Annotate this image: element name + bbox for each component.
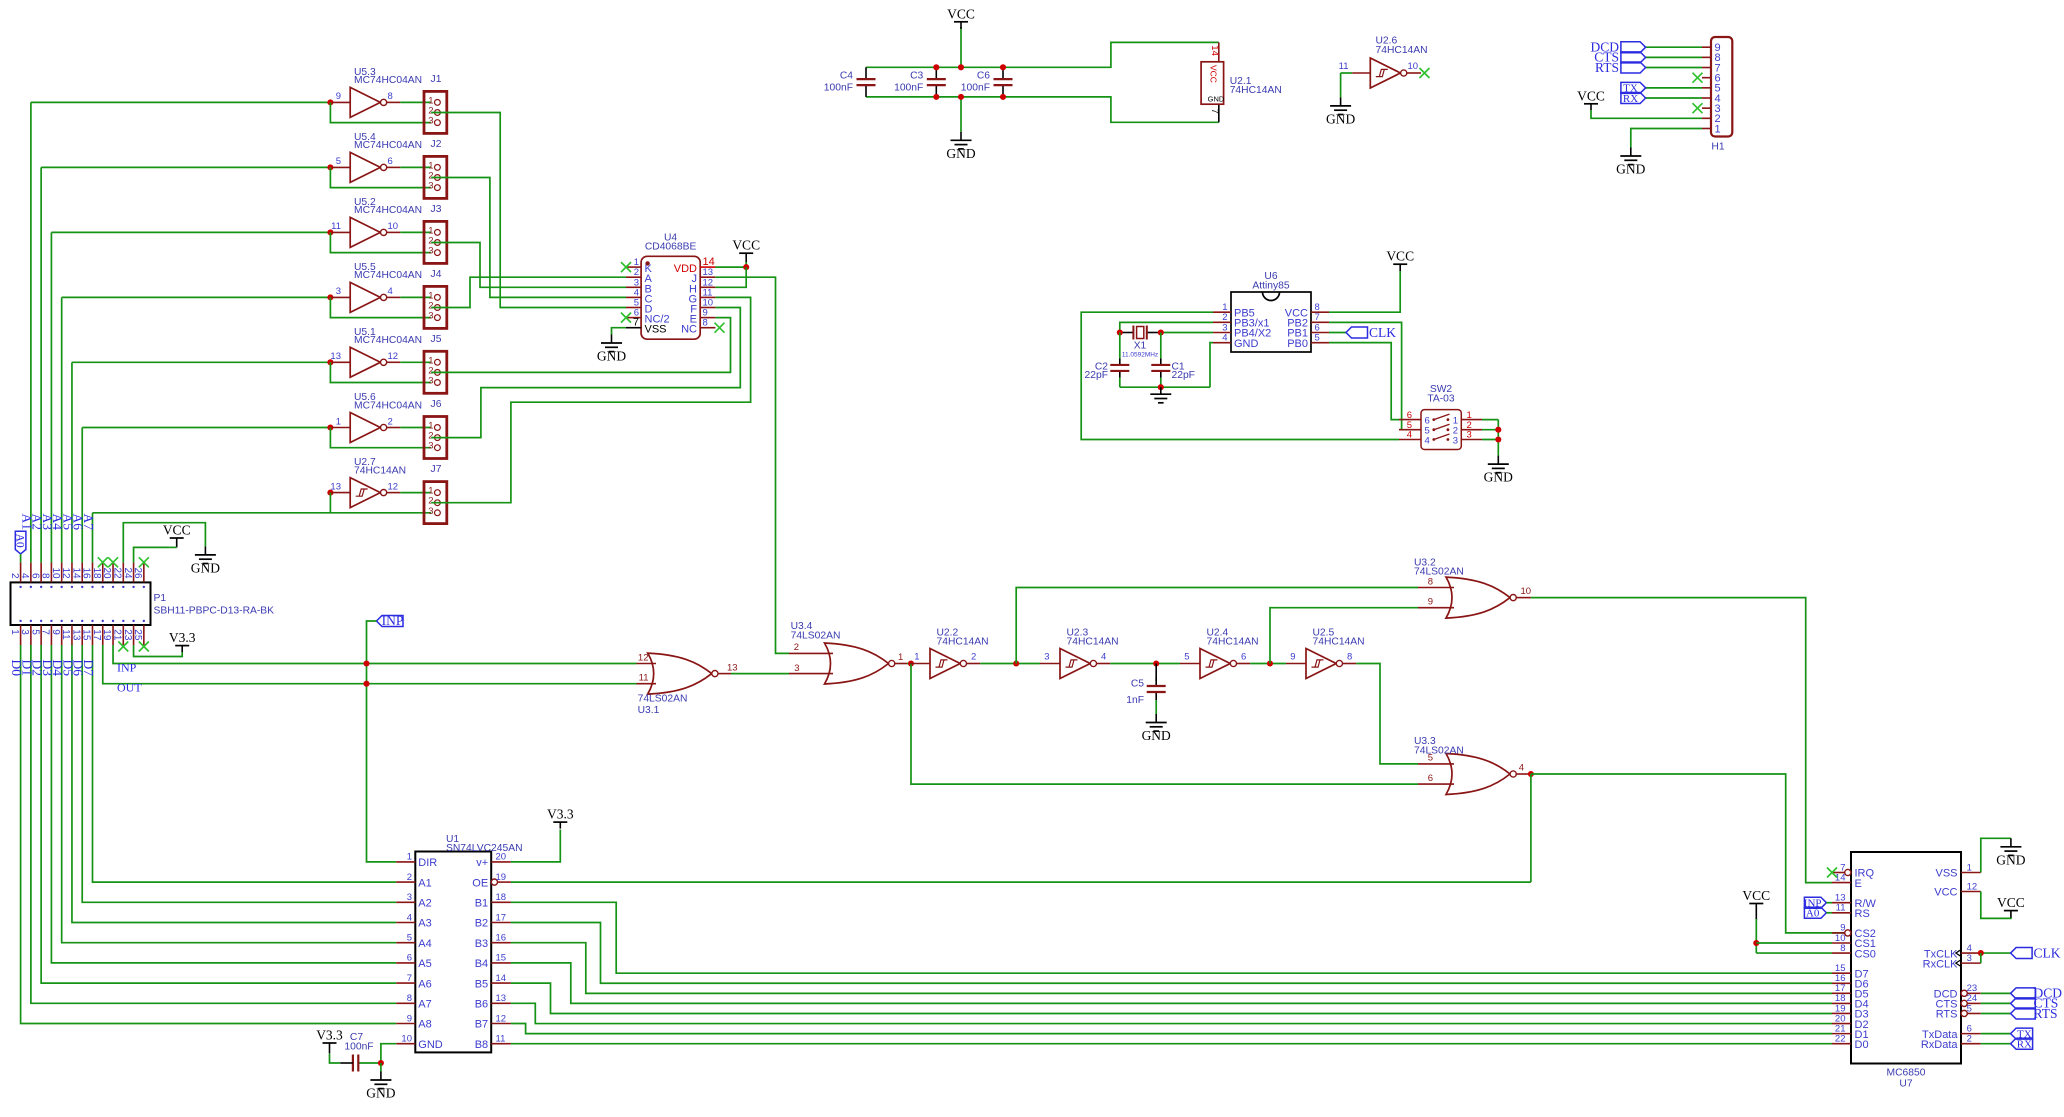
svg-text:74HC14AN: 74HC14AN <box>937 636 989 647</box>
svg-text:74LS02AN: 74LS02AN <box>1414 567 1464 578</box>
svg-text:VCC: VCC <box>1997 895 2025 910</box>
svg-text:3: 3 <box>407 892 412 903</box>
svg-text:B6: B6 <box>475 999 488 1011</box>
svg-text:18: 18 <box>496 892 507 903</box>
svg-text:B8: B8 <box>475 1039 488 1051</box>
svg-text:100nF: 100nF <box>824 82 853 93</box>
svg-text:1: 1 <box>407 852 412 863</box>
svg-text:8: 8 <box>388 91 393 102</box>
svg-text:1: 1 <box>336 416 341 427</box>
svg-text:100nF: 100nF <box>894 82 923 93</box>
svg-text:GND: GND <box>191 560 220 575</box>
svg-text:J1: J1 <box>431 74 442 85</box>
svg-text:RxData: RxData <box>1921 1039 1959 1051</box>
svg-text:100nF: 100nF <box>344 1042 373 1053</box>
svg-text:9: 9 <box>50 629 61 635</box>
svg-text:VSS: VSS <box>1935 868 1957 880</box>
svg-text:74LS02AN: 74LS02AN <box>1414 746 1464 757</box>
svg-text:U7: U7 <box>1899 1079 1912 1090</box>
svg-text:3: 3 <box>794 663 799 674</box>
svg-text:74LS02AN: 74LS02AN <box>791 631 841 642</box>
svg-text:22: 22 <box>1835 1033 1846 1044</box>
svg-text:12: 12 <box>388 481 399 492</box>
svg-text:CLK: CLK <box>2034 946 2061 961</box>
svg-text:4: 4 <box>407 912 412 923</box>
svg-text:C6: C6 <box>977 71 990 82</box>
svg-text:2: 2 <box>971 651 976 662</box>
svg-text:14: 14 <box>1209 45 1220 56</box>
svg-text:A5: A5 <box>418 958 431 970</box>
svg-text:V3.3: V3.3 <box>316 1028 343 1043</box>
svg-text:15: 15 <box>81 629 92 641</box>
svg-text:GND: GND <box>946 146 975 161</box>
svg-text:3: 3 <box>428 246 433 257</box>
svg-text:16: 16 <box>496 933 507 944</box>
svg-text:VCC: VCC <box>1577 88 1605 103</box>
svg-text:A2: A2 <box>418 898 431 910</box>
svg-text:11: 11 <box>1339 61 1349 72</box>
svg-text:74LS02AN: 74LS02AN <box>638 694 688 705</box>
svg-text:8: 8 <box>1428 576 1433 587</box>
svg-text:3: 3 <box>428 181 433 192</box>
svg-text:1: 1 <box>1967 862 1972 873</box>
svg-text:21: 21 <box>112 629 123 641</box>
svg-text:17: 17 <box>496 912 507 923</box>
svg-text:A4: A4 <box>418 938 431 950</box>
svg-text:19: 19 <box>496 872 507 883</box>
svg-text:5: 5 <box>336 156 341 167</box>
svg-text:J7: J7 <box>431 464 442 475</box>
svg-text:1: 1 <box>898 652 903 663</box>
svg-text:5: 5 <box>1315 332 1320 343</box>
svg-text:2: 2 <box>1967 1033 1972 1044</box>
svg-text:18: 18 <box>91 567 102 579</box>
svg-text:15: 15 <box>496 953 507 964</box>
svg-text:74HC14AN: 74HC14AN <box>1230 85 1282 96</box>
svg-text:6: 6 <box>388 156 393 167</box>
svg-text:A1: A1 <box>418 877 431 889</box>
svg-text:4: 4 <box>1407 430 1412 441</box>
svg-text:8: 8 <box>703 318 708 329</box>
svg-text:C5: C5 <box>1131 679 1144 690</box>
svg-text:22pF: 22pF <box>1172 370 1195 381</box>
svg-text:RTS: RTS <box>1936 1009 1958 1021</box>
svg-text:VCC: VCC <box>163 523 191 538</box>
svg-text:GND: GND <box>597 349 626 364</box>
svg-text:MC74HC04AN: MC74HC04AN <box>354 270 422 281</box>
svg-text:MC6850: MC6850 <box>1887 1068 1926 1079</box>
svg-text:9: 9 <box>1428 597 1433 608</box>
svg-text:C3: C3 <box>910 71 923 82</box>
svg-text:2: 2 <box>794 642 799 653</box>
svg-text:1: 1 <box>9 629 20 635</box>
svg-text:DIR: DIR <box>418 857 437 869</box>
svg-text:13: 13 <box>330 351 341 362</box>
svg-text:3: 3 <box>336 286 341 297</box>
svg-text:12: 12 <box>60 567 71 579</box>
svg-text:B3: B3 <box>475 938 488 950</box>
svg-text:3: 3 <box>428 311 433 322</box>
svg-text:NC: NC <box>681 324 697 336</box>
svg-text:SBH11-PBPC-D13-RA-BK: SBH11-PBPC-D13-RA-BK <box>154 605 275 616</box>
svg-text:C4: C4 <box>840 71 853 82</box>
svg-text:3: 3 <box>19 629 30 635</box>
svg-text:H1: H1 <box>1711 142 1724 153</box>
svg-text:V3.3: V3.3 <box>169 630 196 645</box>
svg-text:B7: B7 <box>475 1019 488 1031</box>
svg-text:VCC: VCC <box>732 238 760 253</box>
svg-text:6: 6 <box>1428 773 1433 784</box>
svg-text:MC74HC04AN: MC74HC04AN <box>354 335 422 346</box>
svg-text:23: 23 <box>122 629 133 641</box>
svg-text:MC74HC04AN: MC74HC04AN <box>354 75 422 86</box>
svg-text:B4: B4 <box>475 958 488 970</box>
svg-text:1: 1 <box>914 651 919 662</box>
svg-text:CS0: CS0 <box>1855 948 1876 960</box>
svg-text:D7: D7 <box>81 660 96 677</box>
svg-text:10: 10 <box>1408 61 1419 72</box>
svg-text:7: 7 <box>633 317 639 329</box>
svg-text:RTS: RTS <box>2034 1006 2058 1021</box>
svg-text:25: 25 <box>132 629 143 641</box>
svg-text:MC74HC04AN: MC74HC04AN <box>354 205 422 216</box>
svg-text:4: 4 <box>1222 332 1227 343</box>
svg-text:22pF: 22pF <box>1085 370 1108 381</box>
svg-text:22: 22 <box>112 567 123 579</box>
svg-text:5: 5 <box>407 933 412 944</box>
svg-text:A0: A0 <box>1806 908 1820 920</box>
svg-text:V3.3: V3.3 <box>547 807 574 822</box>
svg-text:A8: A8 <box>418 1019 431 1031</box>
svg-text:3: 3 <box>1467 430 1472 441</box>
svg-text:4: 4 <box>388 286 393 297</box>
svg-text:VCC: VCC <box>947 6 975 21</box>
svg-text:A7: A7 <box>418 999 431 1011</box>
svg-text:VCC: VCC <box>1386 249 1414 264</box>
svg-text:TA-03: TA-03 <box>1427 394 1455 405</box>
svg-text:10: 10 <box>388 221 399 232</box>
svg-text:5: 5 <box>1967 1003 1972 1014</box>
svg-text:RX: RX <box>1623 93 1638 105</box>
svg-text:OE: OE <box>472 877 488 889</box>
svg-text:12: 12 <box>496 1013 507 1024</box>
svg-text:3: 3 <box>1044 651 1049 662</box>
svg-text:MC74HC04AN: MC74HC04AN <box>354 400 422 411</box>
svg-text:U3.1: U3.1 <box>638 705 660 716</box>
svg-text:VCC: VCC <box>1209 65 1219 83</box>
svg-text:14: 14 <box>496 973 507 984</box>
svg-text:20: 20 <box>101 567 112 579</box>
svg-text:A6: A6 <box>418 978 431 990</box>
svg-text:12: 12 <box>388 351 399 362</box>
svg-text:11: 11 <box>331 221 341 232</box>
svg-text:4: 4 <box>1519 763 1524 774</box>
svg-text:11: 11 <box>1836 903 1846 914</box>
svg-text:20: 20 <box>496 852 507 863</box>
svg-text:J4: J4 <box>431 269 442 280</box>
svg-text:RTS: RTS <box>1595 60 1619 75</box>
svg-text:13: 13 <box>727 662 738 673</box>
svg-text:GND: GND <box>1234 338 1259 350</box>
svg-text:GND: GND <box>1616 162 1645 177</box>
svg-text:7: 7 <box>40 629 51 635</box>
svg-text:RS: RS <box>1855 908 1870 920</box>
svg-text:74HC14AN: 74HC14AN <box>1376 45 1428 56</box>
svg-text:74HC14AN: 74HC14AN <box>354 465 406 476</box>
svg-text:10: 10 <box>401 1034 412 1045</box>
svg-text:3: 3 <box>428 376 433 387</box>
svg-text:VSS: VSS <box>645 324 667 336</box>
svg-text:11.0592MHz: 11.0592MHz <box>1122 352 1158 359</box>
svg-text:12: 12 <box>638 652 649 663</box>
svg-text:74HC14AN: 74HC14AN <box>1313 636 1365 647</box>
svg-text:INP: INP <box>382 613 404 628</box>
svg-text:3: 3 <box>1453 435 1458 446</box>
svg-text:4: 4 <box>1425 435 1430 446</box>
svg-text:8: 8 <box>407 993 412 1004</box>
svg-text:OUT: OUT <box>117 681 142 695</box>
svg-text:19: 19 <box>101 629 112 641</box>
svg-text:CLK: CLK <box>1369 325 1396 340</box>
svg-text:GND: GND <box>1142 728 1171 743</box>
svg-text:J5: J5 <box>431 334 442 345</box>
svg-text:A3: A3 <box>418 918 431 930</box>
svg-text:SN74LVC245AN: SN74LVC245AN <box>446 843 523 854</box>
svg-text:9: 9 <box>336 91 341 102</box>
svg-text:A0: A0 <box>13 534 25 548</box>
svg-text:74HC14AN: 74HC14AN <box>1207 636 1259 647</box>
svg-text:26: 26 <box>132 567 143 579</box>
svg-text:8: 8 <box>40 573 51 579</box>
svg-text:7: 7 <box>1209 109 1220 114</box>
svg-text:17: 17 <box>91 629 102 641</box>
svg-text:8: 8 <box>1840 943 1845 954</box>
svg-text:100nF: 100nF <box>961 82 990 93</box>
svg-text:1: 1 <box>1715 123 1721 135</box>
svg-text:GND: GND <box>1484 470 1513 485</box>
svg-text:6: 6 <box>29 573 40 579</box>
svg-text:RxCLK: RxCLK <box>1923 958 1959 970</box>
svg-text:16: 16 <box>81 567 92 579</box>
svg-text:13: 13 <box>330 481 341 492</box>
svg-text:10: 10 <box>1521 586 1532 597</box>
svg-text:B1: B1 <box>475 898 488 910</box>
svg-text:11: 11 <box>496 1034 506 1045</box>
svg-text:13: 13 <box>496 993 507 1004</box>
svg-text:Attiny85: Attiny85 <box>1252 281 1289 292</box>
svg-text:CD4068BE: CD4068BE <box>645 242 697 253</box>
svg-text:13: 13 <box>70 629 81 641</box>
svg-text:3: 3 <box>428 116 433 127</box>
svg-text:GND: GND <box>1996 852 2025 867</box>
svg-text:MC74HC04AN: MC74HC04AN <box>354 140 422 151</box>
svg-text:4: 4 <box>1101 651 1106 662</box>
svg-text:11: 11 <box>639 673 649 684</box>
svg-text:7: 7 <box>407 973 412 984</box>
svg-text:J6: J6 <box>431 399 442 410</box>
svg-text:5: 5 <box>29 629 40 635</box>
svg-text:2: 2 <box>388 416 393 427</box>
svg-text:6: 6 <box>407 953 412 964</box>
svg-text:12: 12 <box>1967 881 1978 892</box>
svg-text:1nF: 1nF <box>1126 695 1144 706</box>
svg-text:VCC: VCC <box>1742 888 1770 903</box>
svg-text:PB0: PB0 <box>1287 338 1308 350</box>
svg-text:A7: A7 <box>81 514 96 531</box>
svg-text:8: 8 <box>1347 651 1352 662</box>
svg-text:GND: GND <box>418 1039 443 1051</box>
svg-text:GND: GND <box>366 1086 395 1101</box>
svg-text:B2: B2 <box>475 918 488 930</box>
svg-text:2: 2 <box>407 872 412 883</box>
svg-text:D0: D0 <box>1855 1039 1869 1051</box>
svg-text:B5: B5 <box>475 978 488 990</box>
svg-text:X1: X1 <box>1134 341 1147 352</box>
svg-text:14: 14 <box>70 567 81 579</box>
svg-text:3: 3 <box>1967 953 1972 964</box>
svg-text:4: 4 <box>19 573 30 579</box>
svg-text:2: 2 <box>9 573 20 579</box>
svg-text:RX: RX <box>2017 1038 2032 1050</box>
svg-text:J3: J3 <box>431 204 442 215</box>
svg-text:P1: P1 <box>154 593 167 604</box>
svg-text:INP: INP <box>117 661 137 675</box>
svg-text:9: 9 <box>1290 651 1295 662</box>
svg-text:GND: GND <box>1208 95 1225 104</box>
svg-text:E: E <box>1855 878 1862 890</box>
svg-text:VCC: VCC <box>1934 887 1957 899</box>
svg-text:5: 5 <box>1184 651 1189 662</box>
svg-text:9: 9 <box>407 1013 412 1024</box>
svg-text:3: 3 <box>428 441 433 452</box>
svg-text:v+: v+ <box>476 857 488 869</box>
svg-text:J2: J2 <box>431 139 442 150</box>
svg-text:3: 3 <box>428 506 433 517</box>
svg-text:10: 10 <box>50 567 61 579</box>
svg-text:GND: GND <box>1326 111 1355 126</box>
svg-text:6: 6 <box>1241 651 1246 662</box>
svg-text:24: 24 <box>122 567 133 579</box>
svg-text:11: 11 <box>60 629 71 640</box>
svg-text:74HC14AN: 74HC14AN <box>1067 636 1119 647</box>
